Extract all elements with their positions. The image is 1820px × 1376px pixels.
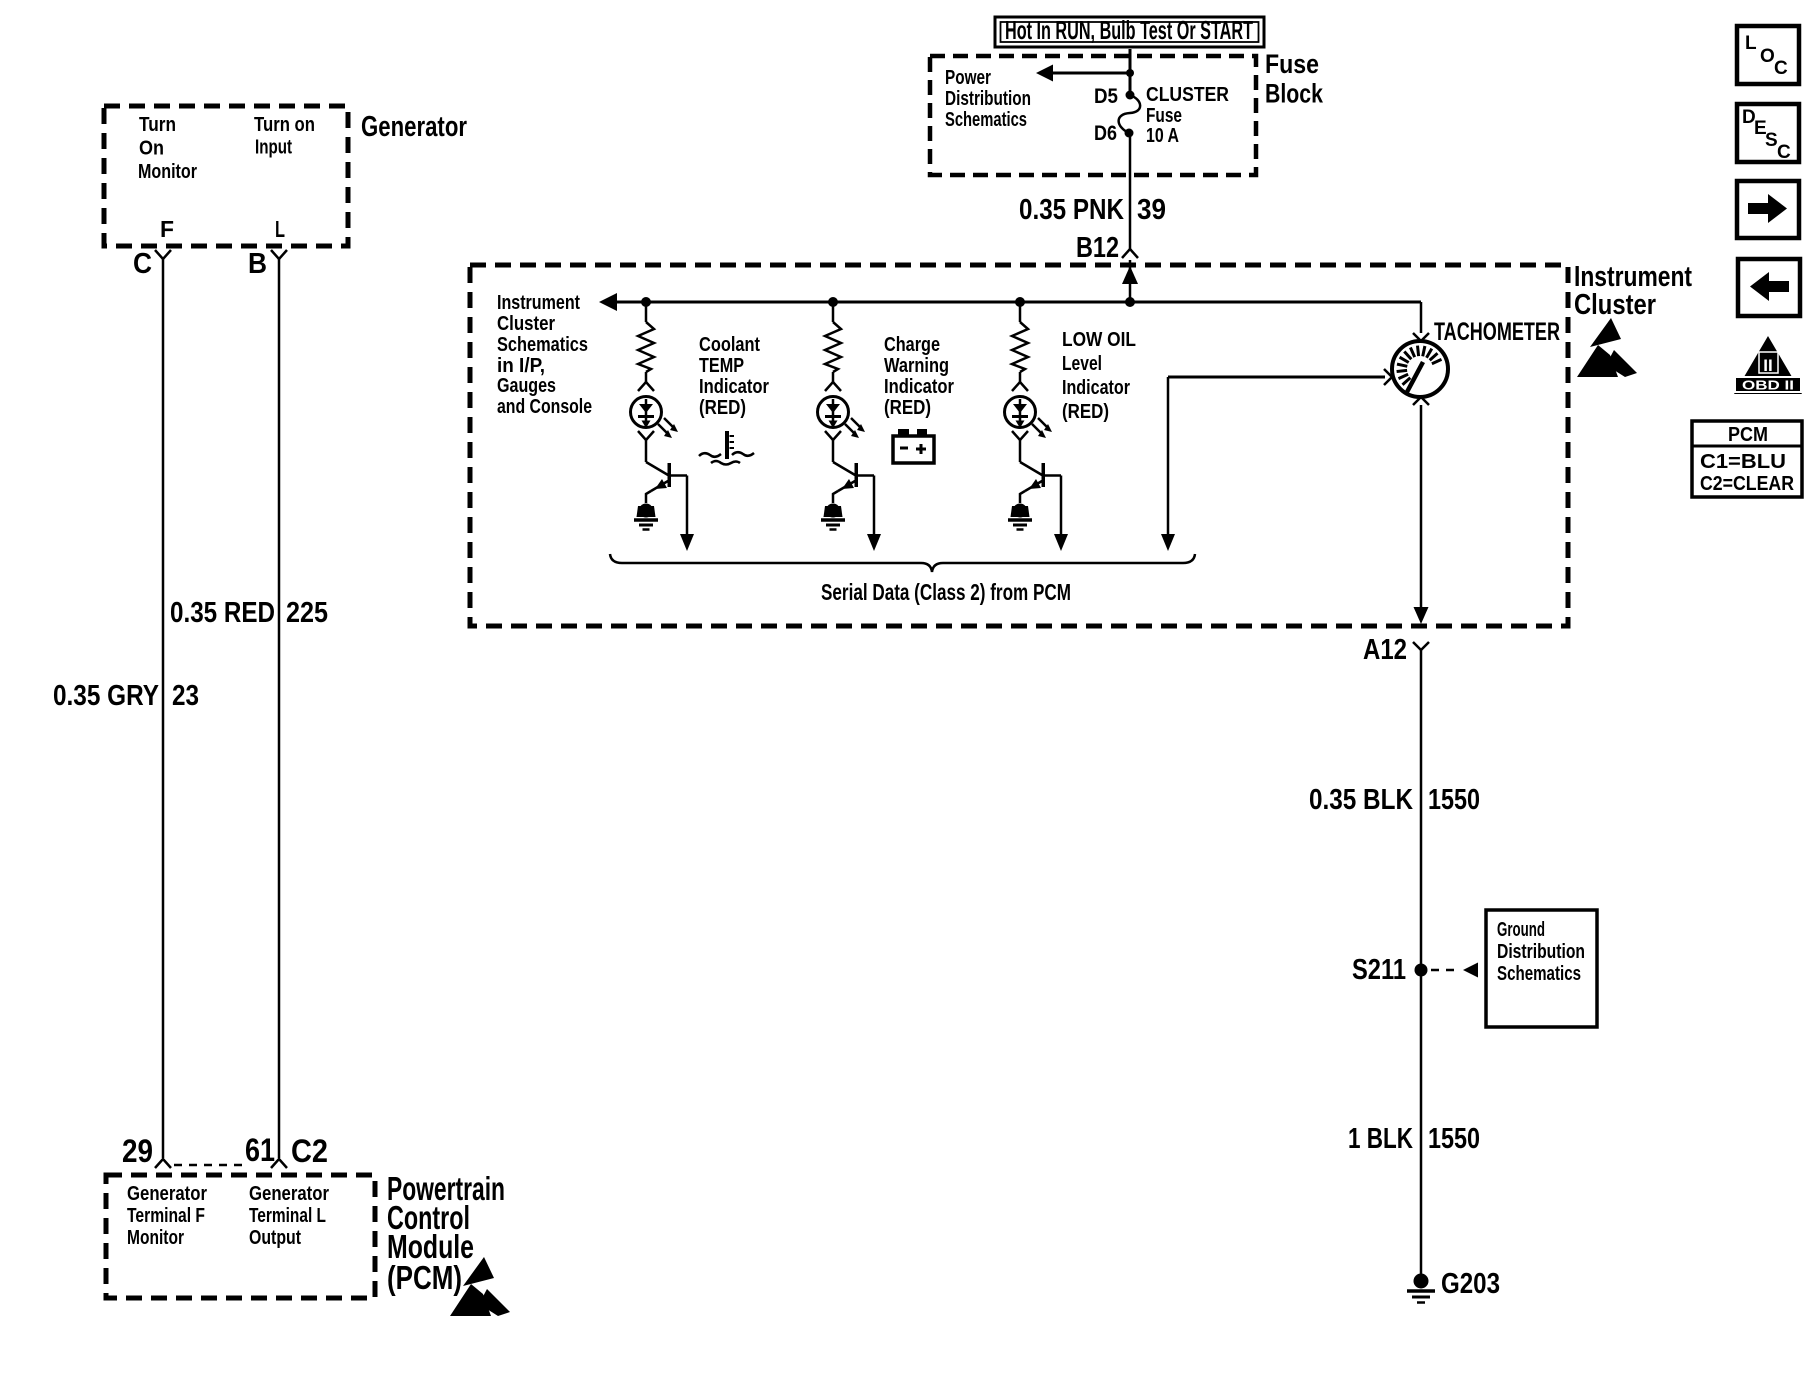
- generator dashed box: [104, 106, 348, 246]
- connector B (generator terminal L): [248, 248, 287, 280]
- svg-text:23: 23: [172, 680, 199, 712]
- label: Charge Warning Indicator (RED): [884, 334, 954, 419]
- wire + inline connector chevron: [825, 372, 841, 391]
- icon: coolant temperature: [699, 431, 754, 465]
- junction node: [641, 297, 651, 307]
- svg-text:Gauges: Gauges: [497, 375, 556, 397]
- TACHOMETER gauge: [1434, 318, 1560, 346]
- PCM dashed box: [106, 1175, 375, 1298]
- svg-text:61: 61: [245, 1132, 275, 1168]
- svg-text:Cluster: Cluster: [1574, 289, 1656, 321]
- svg-text:Distribution: Distribution: [1497, 941, 1585, 963]
- svg-text:C1=BLU: C1=BLU: [1700, 451, 1786, 473]
- note: Generator Terminal F Monitor: [127, 1183, 207, 1249]
- svg-text:Power: Power: [945, 67, 991, 89]
- svg-text:L: L: [1745, 33, 1757, 54]
- svg-text:C: C: [1777, 142, 1791, 163]
- note: Turn on Input: [254, 114, 315, 159]
- svg-text:Generator: Generator: [127, 1183, 207, 1205]
- svg-text:On: On: [139, 138, 164, 160]
- wire: branch to power distribution with left arrow: [1036, 65, 1134, 82]
- wire + inline connector chevron: [638, 372, 654, 391]
- svg-text:10 A: 10 A: [1146, 125, 1179, 147]
- wire: [645, 302, 648, 322]
- svg-text:CLUSTER: CLUSTER: [1146, 84, 1229, 106]
- svg-text:Monitor: Monitor: [138, 161, 197, 183]
- svg-text:0.35 RED: 0.35 RED: [170, 597, 275, 629]
- pin 61 connector at PCM: [245, 1132, 287, 1168]
- legend icon: left arrow box: [1738, 259, 1800, 316]
- junction node: [1015, 297, 1025, 307]
- splice node S211: [1352, 954, 1428, 986]
- svg-text:II: II: [1763, 356, 1772, 375]
- wire: [1019, 302, 1022, 322]
- resistor R2: [825, 322, 841, 372]
- instrument cluster dashed box: [470, 265, 1568, 626]
- LED indicator lamp (low oil level, RED): [1005, 397, 1036, 429]
- svg-text:(PCM): (PCM): [387, 1259, 462, 1296]
- wire label 1 BLK 1550: [1348, 1123, 1480, 1155]
- svg-text:Level: Level: [1062, 353, 1102, 375]
- svg-text:Input: Input: [255, 137, 292, 159]
- resistor R1: [638, 322, 654, 372]
- svg-text:OBD II: OBD II: [1742, 378, 1794, 393]
- svg-text:0.35 GRY: 0.35 GRY: [53, 680, 159, 712]
- svg-text:Schematics: Schematics: [945, 109, 1027, 131]
- light rays: [1032, 418, 1052, 438]
- ground (branch 3): [1008, 504, 1032, 530]
- note: Generator Terminal L Output: [249, 1183, 329, 1249]
- note: Power Distribution Schematics: [945, 67, 1031, 131]
- wire: [832, 302, 835, 322]
- svg-text:0.35 BLK: 0.35 BLK: [1309, 784, 1413, 816]
- note: Turn On Monitor: [138, 114, 197, 183]
- svg-text:(RED): (RED): [699, 397, 746, 419]
- wire label 0.35 RED 225: [170, 597, 328, 629]
- wire: bus elbow down to tach top with connector: [1413, 302, 1429, 341]
- legend: PCM connector colors: [1692, 421, 1802, 497]
- svg-text:TACHOMETER: TACHOMETER: [1434, 318, 1560, 346]
- svg-text:C2=CLEAR: C2=CLEAR: [1700, 473, 1794, 495]
- wire: serial data lead (branch 2) with down arrow: [867, 476, 881, 552]
- svg-text:1550: 1550: [1428, 1123, 1480, 1155]
- svg-text:F: F: [160, 216, 174, 242]
- svg-text:Turn on: Turn on: [254, 114, 315, 136]
- wire label 0.35 PNK 39: [1019, 194, 1166, 226]
- ESD symbol (instrument cluster): [1577, 318, 1637, 377]
- svg-text:Terminal F: Terminal F: [127, 1205, 205, 1227]
- svg-text:(RED): (RED): [884, 397, 931, 419]
- svg-text:G203: G203: [1441, 1268, 1500, 1300]
- ground (branch 1): [634, 504, 658, 530]
- LED indicator lamp (coolant temp, RED): [631, 397, 662, 429]
- svg-text:B: B: [248, 248, 267, 280]
- wire: fuse D6 down to instrument cluster B12: [1129, 137, 1132, 250]
- connector C (generator terminal F): [133, 248, 171, 280]
- svg-text:Block: Block: [1265, 79, 1324, 109]
- LED indicator lamp (charge warning, RED): [818, 397, 849, 429]
- svg-text:225: 225: [286, 597, 328, 629]
- light rays: [845, 418, 865, 438]
- label: Coolant TEMP Indicator (RED): [699, 334, 769, 419]
- power label box: Hot In RUN, Bulb Test Or START: [995, 15, 1264, 47]
- svg-text:Fuse: Fuse: [1146, 105, 1182, 127]
- svg-text:L: L: [275, 216, 285, 242]
- wire: serial data lead (branch 3) with down arrow: [1054, 476, 1068, 552]
- svg-text:Turn: Turn: [139, 114, 176, 136]
- svg-text:Terminal L: Terminal L: [249, 1205, 326, 1227]
- svg-text:1550: 1550: [1428, 784, 1480, 816]
- svg-text:S211: S211: [1352, 954, 1406, 986]
- legend icon: LOC box: [1737, 26, 1799, 84]
- brace: serial data group: [610, 554, 1195, 572]
- svg-text:0.35 PNK: 0.35 PNK: [1019, 194, 1124, 226]
- resistor R3: [1012, 322, 1028, 372]
- svg-text:Ground: Ground: [1497, 919, 1545, 941]
- svg-text:Charge: Charge: [884, 334, 940, 356]
- transistor Q1: [646, 462, 687, 503]
- wire: feed from hot bus into fuse block: [1129, 49, 1132, 95]
- svg-text:D6: D6: [1094, 122, 1117, 145]
- svg-text:Instrument: Instrument: [497, 292, 580, 314]
- transistor Q2: [833, 462, 874, 503]
- svg-text:Schematics: Schematics: [1497, 963, 1581, 985]
- svg-text:TEMP: TEMP: [699, 355, 744, 377]
- svg-text:(RED): (RED): [1062, 401, 1109, 423]
- node B12 connector: [1076, 232, 1138, 264]
- svg-text:Warning: Warning: [884, 355, 949, 377]
- label Fuse Block: [1265, 49, 1324, 109]
- svg-text:Hot In RUN, Bulb Test Or START: Hot In RUN, Bulb Test Or START: [1005, 15, 1253, 45]
- tachometer gauge body: [1392, 341, 1448, 397]
- svg-text:Fuse: Fuse: [1265, 49, 1319, 79]
- label Instrument Cluster: [1574, 261, 1692, 321]
- junction node: [828, 297, 838, 307]
- transistor Q3: [1020, 462, 1061, 503]
- note: Instrument Cluster Schematics in I/P, Gauges and Console: [497, 292, 592, 418]
- svg-text:PCM: PCM: [1728, 424, 1768, 446]
- svg-text:Indicator: Indicator: [1062, 377, 1130, 399]
- node A12 connector: [1363, 634, 1429, 666]
- ground (branch 2): [821, 504, 845, 530]
- inline connector Y: [1012, 431, 1028, 462]
- fuse block dashed box: [930, 56, 1256, 175]
- svg-text:D5: D5: [1094, 85, 1118, 108]
- svg-text:B12: B12: [1076, 232, 1119, 264]
- wire: 0.35 RED 225: [278, 259, 281, 1158]
- svg-text:S: S: [1765, 130, 1778, 151]
- pin 29 connector at PCM: [122, 1133, 171, 1169]
- inline connector Y: [825, 431, 841, 462]
- wire label 0.35 BLK 1550: [1309, 784, 1480, 816]
- svg-text:Generator: Generator: [361, 111, 467, 143]
- svg-text:A12: A12: [1363, 634, 1407, 666]
- label: LOW OIL Level Indicator (RED): [1062, 329, 1136, 423]
- svg-text:Cluster: Cluster: [497, 313, 555, 335]
- svg-text:Output: Output: [249, 1227, 301, 1249]
- svg-text:39: 39: [1137, 194, 1166, 226]
- wire: S211 down to G203: [1420, 970, 1423, 1274]
- inline connector Y: [638, 431, 654, 462]
- legend icon: DESC box: [1737, 104, 1799, 163]
- svg-text:Schematics: Schematics: [497, 334, 588, 356]
- svg-text:Generator: Generator: [249, 1183, 329, 1205]
- value label: CLUSTER Fuse 10 A: [1146, 84, 1229, 147]
- wire: 0.35 GRY 23: [162, 259, 165, 1158]
- svg-text:C2: C2: [291, 1133, 328, 1169]
- wire: A12 down to S211: [1420, 658, 1423, 970]
- svg-text:C: C: [133, 248, 152, 280]
- svg-text:and Console: and Console: [497, 396, 592, 418]
- gauge needle: [1407, 362, 1423, 392]
- svg-text:29: 29: [122, 1133, 153, 1169]
- reference box: Ground Distribution Schematics: [1486, 910, 1597, 1027]
- svg-text:1 BLK: 1 BLK: [1348, 1123, 1413, 1155]
- svg-text:in I/P,: in I/P,: [497, 355, 545, 377]
- svg-text:Serial Data (Class 2) from PCM: Serial Data (Class 2) from PCM: [821, 579, 1071, 605]
- svg-text:Indicator: Indicator: [699, 376, 769, 398]
- svg-text:Indicator: Indicator: [884, 376, 954, 398]
- wire: B12 into cluster with entry arrow: [1122, 260, 1138, 307]
- wire label 0.35 GRY 23: [53, 680, 199, 712]
- wire + inline connector chevron: [1012, 372, 1028, 391]
- svg-text:Distribution: Distribution: [945, 88, 1031, 110]
- svg-text:Monitor: Monitor: [127, 1227, 184, 1249]
- icon: battery: [893, 429, 934, 463]
- wire: tach left terminal to serial data arrow: [1161, 369, 1392, 551]
- fuse CLUSTER Fuse 10 A, terminals D5/D6: [1119, 91, 1141, 138]
- legend icon: right arrow box: [1737, 181, 1799, 238]
- label Powertrain Control Module (PCM): [387, 1170, 505, 1296]
- legend icon: OBD II triangle: [1734, 336, 1802, 394]
- svg-text:O: O: [1760, 46, 1775, 67]
- ground G203: [1407, 1268, 1500, 1303]
- svg-text:Coolant: Coolant: [699, 334, 760, 356]
- bus wire inside cluster with left arrow: [599, 293, 1421, 311]
- svg-text:LOW OIL: LOW OIL: [1062, 329, 1136, 351]
- wire: serial data lead (branch 1) with down arrow: [680, 476, 694, 552]
- light rays: [658, 418, 678, 438]
- dashed reference link with arrow: [1431, 963, 1478, 978]
- svg-text:C: C: [1774, 58, 1788, 79]
- wire: tach bottom to A12 with exit arrow: [1413, 397, 1429, 624]
- ESD symbol (PCM): [450, 1257, 510, 1316]
